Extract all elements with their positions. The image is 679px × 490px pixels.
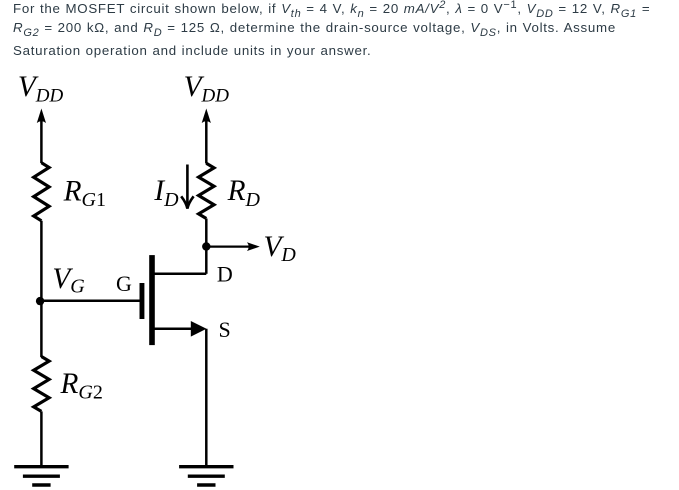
supply arrow VDD right <box>202 109 211 124</box>
resistor RG1 <box>34 163 49 221</box>
wire gate <box>41 299 139 302</box>
mosfet gate bar <box>140 283 145 319</box>
node VG dot <box>36 297 44 305</box>
svg-text:RG1: RG1 <box>63 175 106 211</box>
svg-text:VDD: VDD <box>18 71 64 106</box>
source arrowhead <box>191 321 207 337</box>
svg-text:RD: RD <box>227 175 261 211</box>
svg-text:VD: VD <box>264 231 297 266</box>
svg-text:D: D <box>217 261 233 286</box>
wire <box>40 411 43 466</box>
svg-text:VDD: VDD <box>184 71 230 106</box>
svg-text:RG2: RG2 <box>60 368 103 404</box>
current arrow ID <box>181 165 193 209</box>
mosfet channel bar <box>149 255 155 345</box>
svg-text:S: S <box>219 317 231 342</box>
wire <box>205 119 208 164</box>
wire <box>205 219 208 274</box>
supply arrow VDD left <box>37 109 46 124</box>
svg-text:VG: VG <box>52 263 85 298</box>
svg-text:ID: ID <box>153 175 179 211</box>
resistor RG2 <box>34 357 49 412</box>
wire <box>40 119 43 163</box>
ground left <box>14 467 68 485</box>
arrow to VD label <box>206 246 249 248</box>
wire <box>40 221 43 357</box>
ground right <box>179 467 233 485</box>
wire source down <box>205 329 208 467</box>
wire source with arrow <box>152 328 193 331</box>
node VD dot <box>202 242 210 250</box>
svg-text:G: G <box>116 271 132 296</box>
wire drain horizontal <box>152 273 206 276</box>
resistor RD <box>199 163 214 218</box>
